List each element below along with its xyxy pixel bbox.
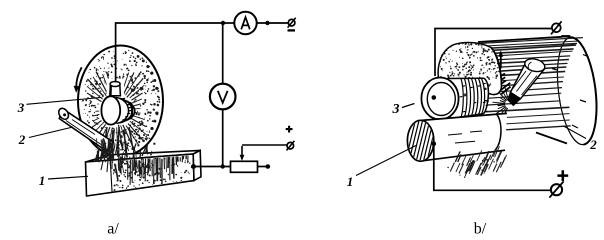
svg-text:2: 2 (18, 132, 26, 147)
svg-text:a/: a/ (107, 221, 119, 238)
svg-text:1: 1 (347, 174, 354, 189)
svg-text:3: 3 (17, 100, 25, 115)
svg-text:3: 3 (392, 102, 400, 117)
svg-text:1: 1 (39, 173, 46, 188)
svg-text:2: 2 (589, 137, 597, 152)
svg-text:b/: b/ (474, 221, 487, 238)
